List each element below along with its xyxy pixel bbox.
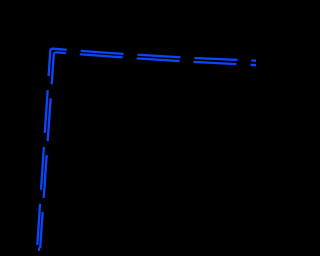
- series 2 terminal dash dot: [38, 248, 40, 251]
- chart canvas: [0, 0, 256, 256]
- dashed curve series 2 (inner/lower): [40, 52, 256, 248]
- dashed curve series 1 (outer/upper): [37, 49, 256, 245]
